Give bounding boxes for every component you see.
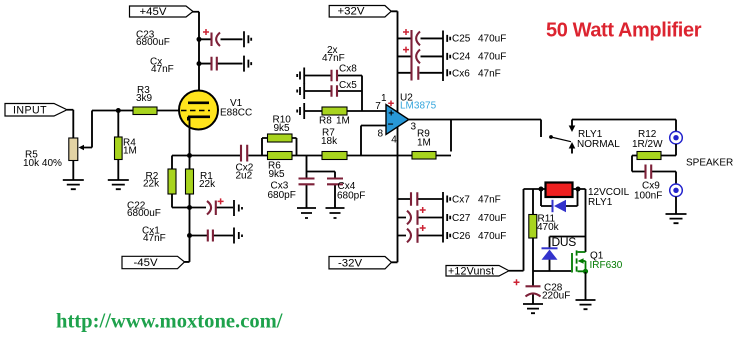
node relay left terminal <box>539 187 544 192</box>
svg-text:4: 4 <box>391 134 397 145</box>
svg-text:IRF630: IRF630 <box>590 260 623 271</box>
wire C28 lead <box>532 271 534 304</box>
switch contact lower (arrow up) <box>571 149 573 154</box>
wire R10 loop <box>262 138 297 156</box>
ground (C22, right-pointing) <box>234 200 242 216</box>
ground (R4) <box>108 180 129 189</box>
svg-text:7: 7 <box>375 101 381 112</box>
wire switch lever <box>551 137 571 142</box>
transistor Q1 IRF630 <box>572 250 588 274</box>
wire +45V rail down to tube anode <box>193 12 200 103</box>
ground (Cx1, right-pointing) <box>234 228 242 244</box>
ground (Cx3) <box>297 208 316 218</box>
capacitor Cx <box>212 57 217 71</box>
power flag +32V <box>329 6 391 18</box>
ground bus bar (bottom cap group) <box>442 192 444 243</box>
resistor R6 <box>268 152 293 160</box>
resistor R11 <box>529 215 537 239</box>
svg-text:Cx7: Cx7 <box>452 195 470 206</box>
ground (C28) <box>523 304 543 313</box>
svg-text:+45V: +45V <box>140 6 167 18</box>
svg-text:C26: C26 <box>452 231 471 242</box>
svg-text:http://www.moxtone.com/: http://www.moxtone.com/ <box>56 310 283 332</box>
wire INPUT to potentiometer <box>67 110 73 138</box>
svg-text:47nF: 47nF <box>322 53 345 64</box>
wire relay to Q1 drain <box>573 189 586 252</box>
resistor R4 <box>115 137 123 160</box>
svg-text:10k 40%: 10k 40% <box>23 158 62 169</box>
svg-text:100nF: 100nF <box>634 190 662 201</box>
wire C22 branch <box>190 207 234 209</box>
resistor R12 <box>637 152 661 160</box>
capacitor C26 <box>407 225 426 243</box>
potentiometer R5 <box>69 138 84 161</box>
svg-text:8: 8 <box>378 129 384 140</box>
wire R6 to R7 <box>292 155 322 157</box>
svg-text:+32V: +32V <box>338 6 365 18</box>
wire R11 leads <box>532 189 534 271</box>
svg-text:680pF: 680pF <box>268 190 296 201</box>
svg-text:-45V: -45V <box>134 257 158 269</box>
svg-text:RLY1: RLY1 <box>588 197 613 208</box>
wire -45V rail <box>185 208 190 262</box>
svg-text:1R/2W: 1R/2W <box>632 139 663 150</box>
wire gate line <box>533 270 571 272</box>
capacitor Cx8 <box>332 70 338 82</box>
wire Cx7 branch <box>398 198 444 200</box>
node junction C23 <box>197 37 202 42</box>
capacitor C24 <box>403 47 420 64</box>
svg-text:47nF: 47nF <box>478 195 501 206</box>
svg-text:3: 3 <box>411 122 417 133</box>
speaker terminal 2 <box>670 184 683 197</box>
wire +12V to relay rail <box>509 189 546 271</box>
svg-text:−: − <box>388 120 394 131</box>
capacitor Cx9 <box>646 165 652 179</box>
svg-text:47nF: 47nF <box>151 64 174 75</box>
ground bus bar (top cap group) <box>442 31 444 82</box>
wire Cx5 branch <box>305 90 362 92</box>
capacitor C28 <box>514 279 541 296</box>
wire terminal1 to R12 <box>661 144 676 156</box>
svg-text:R8: R8 <box>319 115 332 126</box>
svg-text:470k: 470k <box>537 222 560 233</box>
wire relay diode loop <box>541 189 578 206</box>
resistor R9 <box>412 152 436 160</box>
svg-text:E88CC: E88CC <box>220 108 252 119</box>
wire R3 to tube grid <box>157 110 180 112</box>
svg-text:47nF: 47nF <box>478 69 501 80</box>
svg-text:Cx6: Cx6 <box>452 69 470 80</box>
resistor R10 (parallel loop) <box>268 134 293 142</box>
wire cathode lead <box>189 118 191 156</box>
wire Cx1 branch <box>190 235 234 237</box>
wire Cx8 branch <box>305 75 362 77</box>
diode DUS <box>542 237 558 272</box>
wire R9 feedback riser <box>436 120 451 156</box>
wire C26 branch <box>398 235 444 237</box>
capacitor C27 <box>407 207 426 225</box>
svg-text:18k: 18k <box>321 136 338 147</box>
svg-text:C27: C27 <box>452 213 471 224</box>
speaker terminal 1 <box>670 131 683 144</box>
wire R5 bottom <box>72 161 74 181</box>
relay coil RLY1 <box>546 183 573 198</box>
node A (grid node) <box>116 108 121 113</box>
svg-text:+12Vunst: +12Vunst <box>448 266 494 278</box>
ground marks C26 <box>447 232 450 239</box>
ground marks C27 <box>447 214 450 221</box>
diode (relay flyback) <box>553 200 567 212</box>
wire C27 branch <box>398 217 444 219</box>
wire Cx8/Cx5 bus <box>361 76 363 112</box>
svg-text:470uF: 470uF <box>478 51 506 62</box>
svg-text:6800uF: 6800uF <box>136 37 170 48</box>
wire inverting input riser <box>361 126 386 156</box>
connector flag INPUT <box>5 104 67 117</box>
ground (Cx8, left-pointing) <box>297 68 304 84</box>
svg-text:220uF: 220uF <box>542 291 570 302</box>
ground (Cx4) <box>326 208 345 218</box>
op-amp red plus mark <box>388 101 394 107</box>
svg-text:+: + <box>388 109 394 120</box>
capacitor Cx4 <box>327 179 343 185</box>
wire R8 branch <box>305 110 386 112</box>
capacitor Cx3 <box>299 179 315 185</box>
svg-text:22k: 22k <box>143 179 160 190</box>
svg-text:1M: 1M <box>336 115 350 126</box>
capacitor C22 <box>207 198 224 215</box>
wire C23 branch <box>199 38 243 40</box>
switch contact upper (arrow down) <box>571 120 573 127</box>
capacitor Cx1 <box>208 230 213 242</box>
ground marks Cx6 <box>447 69 450 76</box>
svg-text:470uF: 470uF <box>478 213 506 224</box>
wire R12 to Cx9 <box>632 156 676 185</box>
wire Cx branch <box>199 63 243 65</box>
node Cx1 junction <box>187 233 192 238</box>
wire R7 to R9/inverting input <box>347 155 412 157</box>
svg-text:9k5: 9k5 <box>269 169 286 180</box>
ground (speaker) <box>666 214 687 223</box>
power flag +45V <box>130 6 194 18</box>
svg-text:2u2: 2u2 <box>236 171 253 182</box>
triode V1 E88CC <box>179 91 218 130</box>
svg-text:1M: 1M <box>123 145 137 156</box>
svg-text:C24: C24 <box>452 51 471 62</box>
svg-text:3k9: 3k9 <box>136 93 153 104</box>
svg-text:1M: 1M <box>417 138 431 149</box>
svg-text:INPUT: INPUT <box>13 105 47 117</box>
power flag -32V <box>329 257 392 270</box>
wire R4 leads <box>117 111 119 181</box>
wire terminal2 to ground <box>675 197 677 214</box>
svg-text:DUS: DUS <box>552 235 577 249</box>
capacitor C23 <box>203 29 220 46</box>
svg-text:470uF: 470uF <box>478 231 506 242</box>
wire R2/R1 leads <box>172 156 190 208</box>
ground (Cx5, left-pointing) <box>297 83 304 99</box>
resistor R8 <box>322 107 347 115</box>
node relay right terminal <box>576 187 581 192</box>
svg-text:LM3875: LM3875 <box>400 101 437 112</box>
node -45V rail top <box>187 205 192 210</box>
svg-text:50 Watt Amplifier: 50 Watt Amplifier <box>546 20 702 42</box>
svg-text:Cx8: Cx8 <box>339 64 357 75</box>
capacitor Cx6 <box>417 66 419 80</box>
capacitor Cx7 <box>411 192 417 205</box>
capacitor Cx2 <box>241 145 247 162</box>
capacitor Cx5 <box>332 85 338 97</box>
ground (Cx, right-pointing) <box>244 56 251 72</box>
wire +32V rail (runs down to -32V flag) <box>391 11 397 262</box>
svg-text:Cx5: Cx5 <box>339 80 357 91</box>
ground (R5) <box>63 180 84 189</box>
wire C25/C24/Cx6 branches <box>398 38 444 72</box>
wire Cx3/Cx4 tee <box>307 156 336 209</box>
node junction Cx <box>197 61 202 66</box>
wire cathode line to Cx2 <box>172 155 268 157</box>
ground marks Cx7 <box>447 196 450 203</box>
wire contact to speaker <box>572 120 676 132</box>
ground (Q1) <box>576 300 596 309</box>
power flag +12Vunst <box>446 266 509 278</box>
resistor R3 <box>133 107 157 115</box>
svg-text:SPEAKER: SPEAKER <box>686 158 733 169</box>
node cathode junction <box>187 153 192 158</box>
svg-text:NORMAL: NORMAL <box>577 139 620 150</box>
power flag -45V <box>122 256 185 269</box>
svg-text:-32V: -32V <box>338 257 362 269</box>
svg-text:470uF: 470uF <box>478 33 506 44</box>
capacitor C25 <box>403 29 420 81</box>
wire R5 wiper up to node <box>84 111 133 148</box>
wire Q1 source to ground <box>585 272 587 300</box>
ground (C23, right-pointing) <box>244 31 251 47</box>
op-amp U2 LM3875 <box>386 105 409 135</box>
svg-text:47nF: 47nF <box>143 233 166 244</box>
resistor R7 <box>322 152 347 160</box>
ground (R8, left-pointing) <box>297 103 304 119</box>
ground marks C25 <box>447 35 450 42</box>
resistor R2 <box>168 169 176 194</box>
svg-text:1: 1 <box>381 93 387 104</box>
svg-text:680pF: 680pF <box>337 191 365 202</box>
ground marks C24 <box>447 53 450 60</box>
resistor R1 <box>186 169 194 194</box>
svg-text:9k5: 9k5 <box>274 123 291 134</box>
wire DUS to drain <box>550 236 586 238</box>
svg-text:22k: 22k <box>199 179 216 190</box>
svg-text:C25: C25 <box>452 33 471 44</box>
wire op-amp output <box>409 120 541 138</box>
svg-text:6800uF: 6800uF <box>127 208 161 219</box>
node relay switch pivot <box>549 135 553 139</box>
